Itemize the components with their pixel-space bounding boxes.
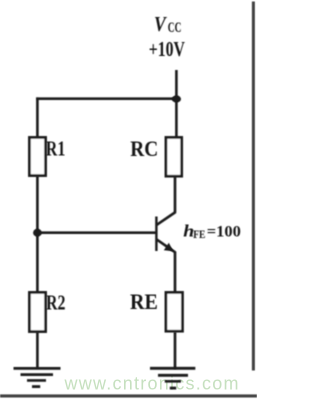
svg-text:CC: CC xyxy=(168,19,182,36)
svg-text:R1: R1 xyxy=(46,138,66,162)
svg-text:R2: R2 xyxy=(46,291,65,315)
svg-text:FE: FE xyxy=(193,228,205,241)
svg-text:+10V: +10V xyxy=(149,38,186,62)
svg-text:RE: RE xyxy=(130,289,158,314)
svg-text:=100: =100 xyxy=(207,223,241,241)
svg-text:RC: RC xyxy=(130,136,158,162)
svg-text:V: V xyxy=(154,14,168,37)
svg-text:www.cntronics.com: www.cntronics.com xyxy=(64,374,240,394)
